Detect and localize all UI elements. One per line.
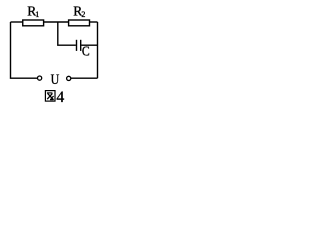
svg-text:2: 2 [81, 10, 85, 19]
svg-text:1: 1 [35, 10, 39, 19]
svg-text:U: U [51, 71, 60, 88]
svg-text:4: 4 [56, 89, 64, 106]
svg-text:C: C [82, 43, 90, 59]
